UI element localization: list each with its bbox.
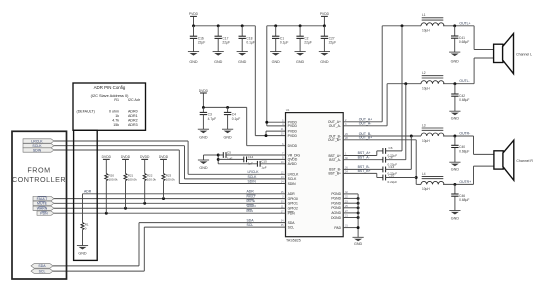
svg-text:SDIN: SDIN — [33, 148, 42, 152]
svg-text:ADR2: ADR2 — [128, 119, 138, 123]
svg-text:L2: L2 — [422, 71, 426, 75]
svg-text:PDN: PDN — [40, 211, 48, 215]
svg-text:ADR: ADR — [84, 190, 92, 194]
svg-text:C1: C1 — [280, 36, 284, 40]
svg-text:PGND: PGND — [331, 192, 341, 196]
svg-text:GND: GND — [223, 136, 232, 140]
svg-text:LRCLK: LRCLK — [248, 170, 260, 174]
svg-text:OUT_B+: OUT_B+ — [328, 138, 341, 142]
svg-text:1µF: 1µF — [248, 161, 254, 165]
svg-text:(DEFAULT): (DEFAULT) — [77, 109, 95, 113]
svg-text:22µF: 22µF — [198, 41, 206, 45]
svg-text:C6: C6 — [389, 146, 393, 150]
svg-text:GPIO1: GPIO1 — [288, 202, 298, 206]
svg-text:GND: GND — [199, 136, 208, 140]
svg-text:R1: R1 — [114, 98, 119, 102]
svg-text:C46: C46 — [459, 194, 465, 198]
svg-text:ADR0: ADR0 — [128, 109, 138, 113]
svg-text:ADR: ADR — [247, 190, 255, 194]
svg-text:C16: C16 — [198, 36, 204, 40]
svg-text:4.7µF: 4.7µF — [208, 117, 217, 121]
svg-text:OUTR-: OUTR- — [459, 132, 470, 136]
svg-text:MUTE: MUTE — [37, 202, 48, 206]
svg-text:GND: GND — [199, 166, 208, 170]
svg-text:0.68µF: 0.68µF — [459, 98, 469, 102]
svg-text:C2: C2 — [304, 36, 308, 40]
svg-text:(I2C Slave Address 0): (I2C Slave Address 0) — [91, 93, 130, 98]
svg-text:ADR1: ADR1 — [128, 114, 138, 118]
svg-text:OUTL+: OUTL+ — [459, 21, 470, 25]
svg-text:OUTR+: OUTR+ — [459, 180, 471, 184]
svg-text:PGND: PGND — [331, 206, 341, 210]
svg-text:22µF: 22µF — [329, 41, 337, 45]
svg-text:CONTROLLER: CONTROLLER — [12, 175, 66, 184]
svg-text:GND: GND — [451, 117, 460, 121]
svg-text:0.68µF: 0.68µF — [459, 150, 469, 154]
svg-text:SCL: SCL — [39, 269, 46, 273]
svg-text:SDA: SDA — [288, 221, 296, 225]
svg-text:1µF: 1µF — [261, 166, 267, 170]
svg-text:PVDD: PVDD — [189, 12, 199, 16]
svg-text:BST_A-: BST_A- — [329, 158, 341, 162]
svg-text:C5: C5 — [227, 151, 231, 155]
svg-text:BST_B+: BST_B+ — [328, 172, 341, 176]
svg-text:BST_B+: BST_B+ — [358, 169, 371, 173]
svg-text:0.1µF: 0.1µF — [246, 41, 255, 45]
svg-text:0.22µF: 0.22µF — [388, 180, 398, 184]
svg-text:GND: GND — [214, 60, 223, 64]
svg-text:DGND: DGND — [331, 216, 341, 220]
svg-text:C8: C8 — [389, 156, 393, 160]
svg-text:L3: L3 — [422, 123, 426, 127]
svg-text:PGND: PGND — [331, 197, 341, 201]
svg-text:0.68µF: 0.68µF — [459, 40, 469, 44]
svg-text:GND: GND — [451, 168, 460, 172]
svg-text:BST_A-: BST_A- — [358, 155, 370, 159]
svg-text:DVDD: DVDD — [102, 155, 112, 159]
svg-text:QVDD: QVDD — [288, 158, 298, 162]
svg-text:GPIO2: GPIO2 — [288, 207, 298, 211]
svg-text:10µH: 10µH — [422, 187, 430, 191]
svg-text:ADR PIN Config: ADR PIN Config — [94, 85, 126, 90]
svg-text:GND: GND — [320, 60, 329, 64]
svg-text:C40: C40 — [459, 145, 465, 149]
svg-text:PVDD: PVDD — [288, 129, 298, 133]
svg-text:100.0k: 100.0k — [166, 177, 176, 181]
svg-text:GND: GND — [451, 59, 460, 63]
svg-text:SDIN: SDIN — [288, 182, 297, 186]
svg-text:SCL: SCL — [247, 223, 254, 227]
svg-text:100.0k: 100.0k — [109, 177, 119, 181]
svg-text:LRCLK: LRCLK — [31, 139, 43, 143]
svg-text:SCLK: SCLK — [288, 177, 298, 181]
svg-text:GND: GND — [296, 60, 305, 64]
svg-text:OUT_B+: OUT_B+ — [359, 136, 372, 140]
svg-text:OUT_A-: OUT_A- — [329, 124, 341, 128]
svg-text:WARN: WARN — [37, 207, 48, 211]
svg-text:GND: GND — [238, 60, 247, 64]
svg-text:C13: C13 — [389, 165, 395, 169]
svg-text:SCL: SCL — [288, 225, 295, 229]
svg-text:GND: GND — [189, 60, 198, 64]
svg-text:DVDD: DVDD — [199, 89, 209, 93]
svg-text:DVDD: DVDD — [159, 155, 169, 159]
svg-text:SDA: SDA — [247, 218, 255, 222]
svg-text:GND: GND — [272, 60, 281, 64]
svg-text:0.68µF: 0.68µF — [459, 198, 469, 202]
svg-text:4.7k: 4.7k — [112, 119, 119, 123]
svg-text:0 ohm: 0 ohm — [109, 109, 119, 113]
svg-text:C14: C14 — [248, 155, 254, 159]
svg-text:C18: C18 — [246, 36, 252, 40]
svg-text:I2C Adr: I2C Adr — [128, 98, 141, 102]
svg-text:PVDD: PVDD — [288, 124, 298, 128]
svg-text:DVDD: DVDD — [140, 155, 150, 159]
svg-text:Channel R: Channel R — [516, 159, 533, 163]
svg-text:GND: GND — [354, 242, 363, 246]
svg-text:PVDD: PVDD — [288, 134, 298, 138]
svg-text:FROM: FROM — [27, 166, 50, 175]
svg-text:FAULT: FAULT — [37, 197, 48, 201]
svg-text:ADR: ADR — [288, 192, 296, 196]
svg-text:10µH: 10µH — [422, 29, 430, 33]
svg-text:C17: C17 — [222, 36, 228, 40]
svg-text:10µH: 10µH — [422, 87, 430, 91]
svg-text:PAD: PAD — [334, 226, 341, 230]
svg-text:100.0k: 100.0k — [128, 177, 138, 181]
svg-text:GPIO0: GPIO0 — [288, 197, 298, 201]
svg-text:Channel L: Channel L — [516, 53, 532, 57]
svg-text:10µH: 10µH — [422, 139, 430, 143]
svg-text:L4: L4 — [422, 172, 426, 176]
svg-text:100.0k: 100.0k — [147, 177, 157, 181]
svg-text:SCLK: SCLK — [248, 175, 258, 179]
svg-text:PGND: PGND — [331, 202, 341, 206]
svg-text:0.1µF: 0.1µF — [280, 41, 289, 45]
svg-text:DVDD: DVDD — [288, 144, 298, 148]
svg-text:PDN: PDN — [288, 212, 296, 216]
svg-text:C3: C3 — [208, 113, 212, 117]
svg-text:TAS5825: TAS5825 — [286, 239, 301, 243]
svg-text:GND: GND — [78, 252, 87, 256]
svg-text:SDIN: SDIN — [248, 179, 257, 183]
svg-text:ADR3: ADR3 — [128, 123, 138, 127]
svg-text:LRCLK: LRCLK — [288, 173, 300, 177]
svg-text:L1: L1 — [422, 13, 426, 17]
svg-text:OUT_A-: OUT_A- — [359, 122, 372, 126]
svg-text:OUTL-: OUTL- — [459, 79, 469, 83]
svg-text:GND: GND — [451, 217, 460, 221]
svg-text:C10: C10 — [389, 173, 395, 177]
svg-text:SDA: SDA — [38, 264, 46, 268]
svg-text:C27: C27 — [329, 36, 335, 40]
svg-text:1k: 1k — [115, 114, 119, 118]
svg-text:DVDD: DVDD — [121, 155, 131, 159]
svg-text:AGND: AGND — [331, 211, 341, 215]
svg-text:15k: 15k — [113, 123, 119, 127]
svg-text:C4: C4 — [232, 113, 236, 117]
svg-text:AVDD: AVDD — [288, 162, 298, 166]
svg-text:PVDD: PVDD — [320, 12, 330, 16]
svg-text:22µF: 22µF — [222, 41, 230, 45]
svg-text:C42: C42 — [459, 94, 465, 98]
svg-text:U1: U1 — [286, 108, 290, 112]
svg-text:0.1µF: 0.1µF — [232, 117, 241, 121]
svg-text:C41: C41 — [459, 36, 465, 40]
svg-text:22µF: 22µF — [304, 41, 312, 45]
svg-text:C15: C15 — [261, 160, 267, 164]
svg-text:VR_DIG: VR_DIG — [288, 153, 301, 157]
